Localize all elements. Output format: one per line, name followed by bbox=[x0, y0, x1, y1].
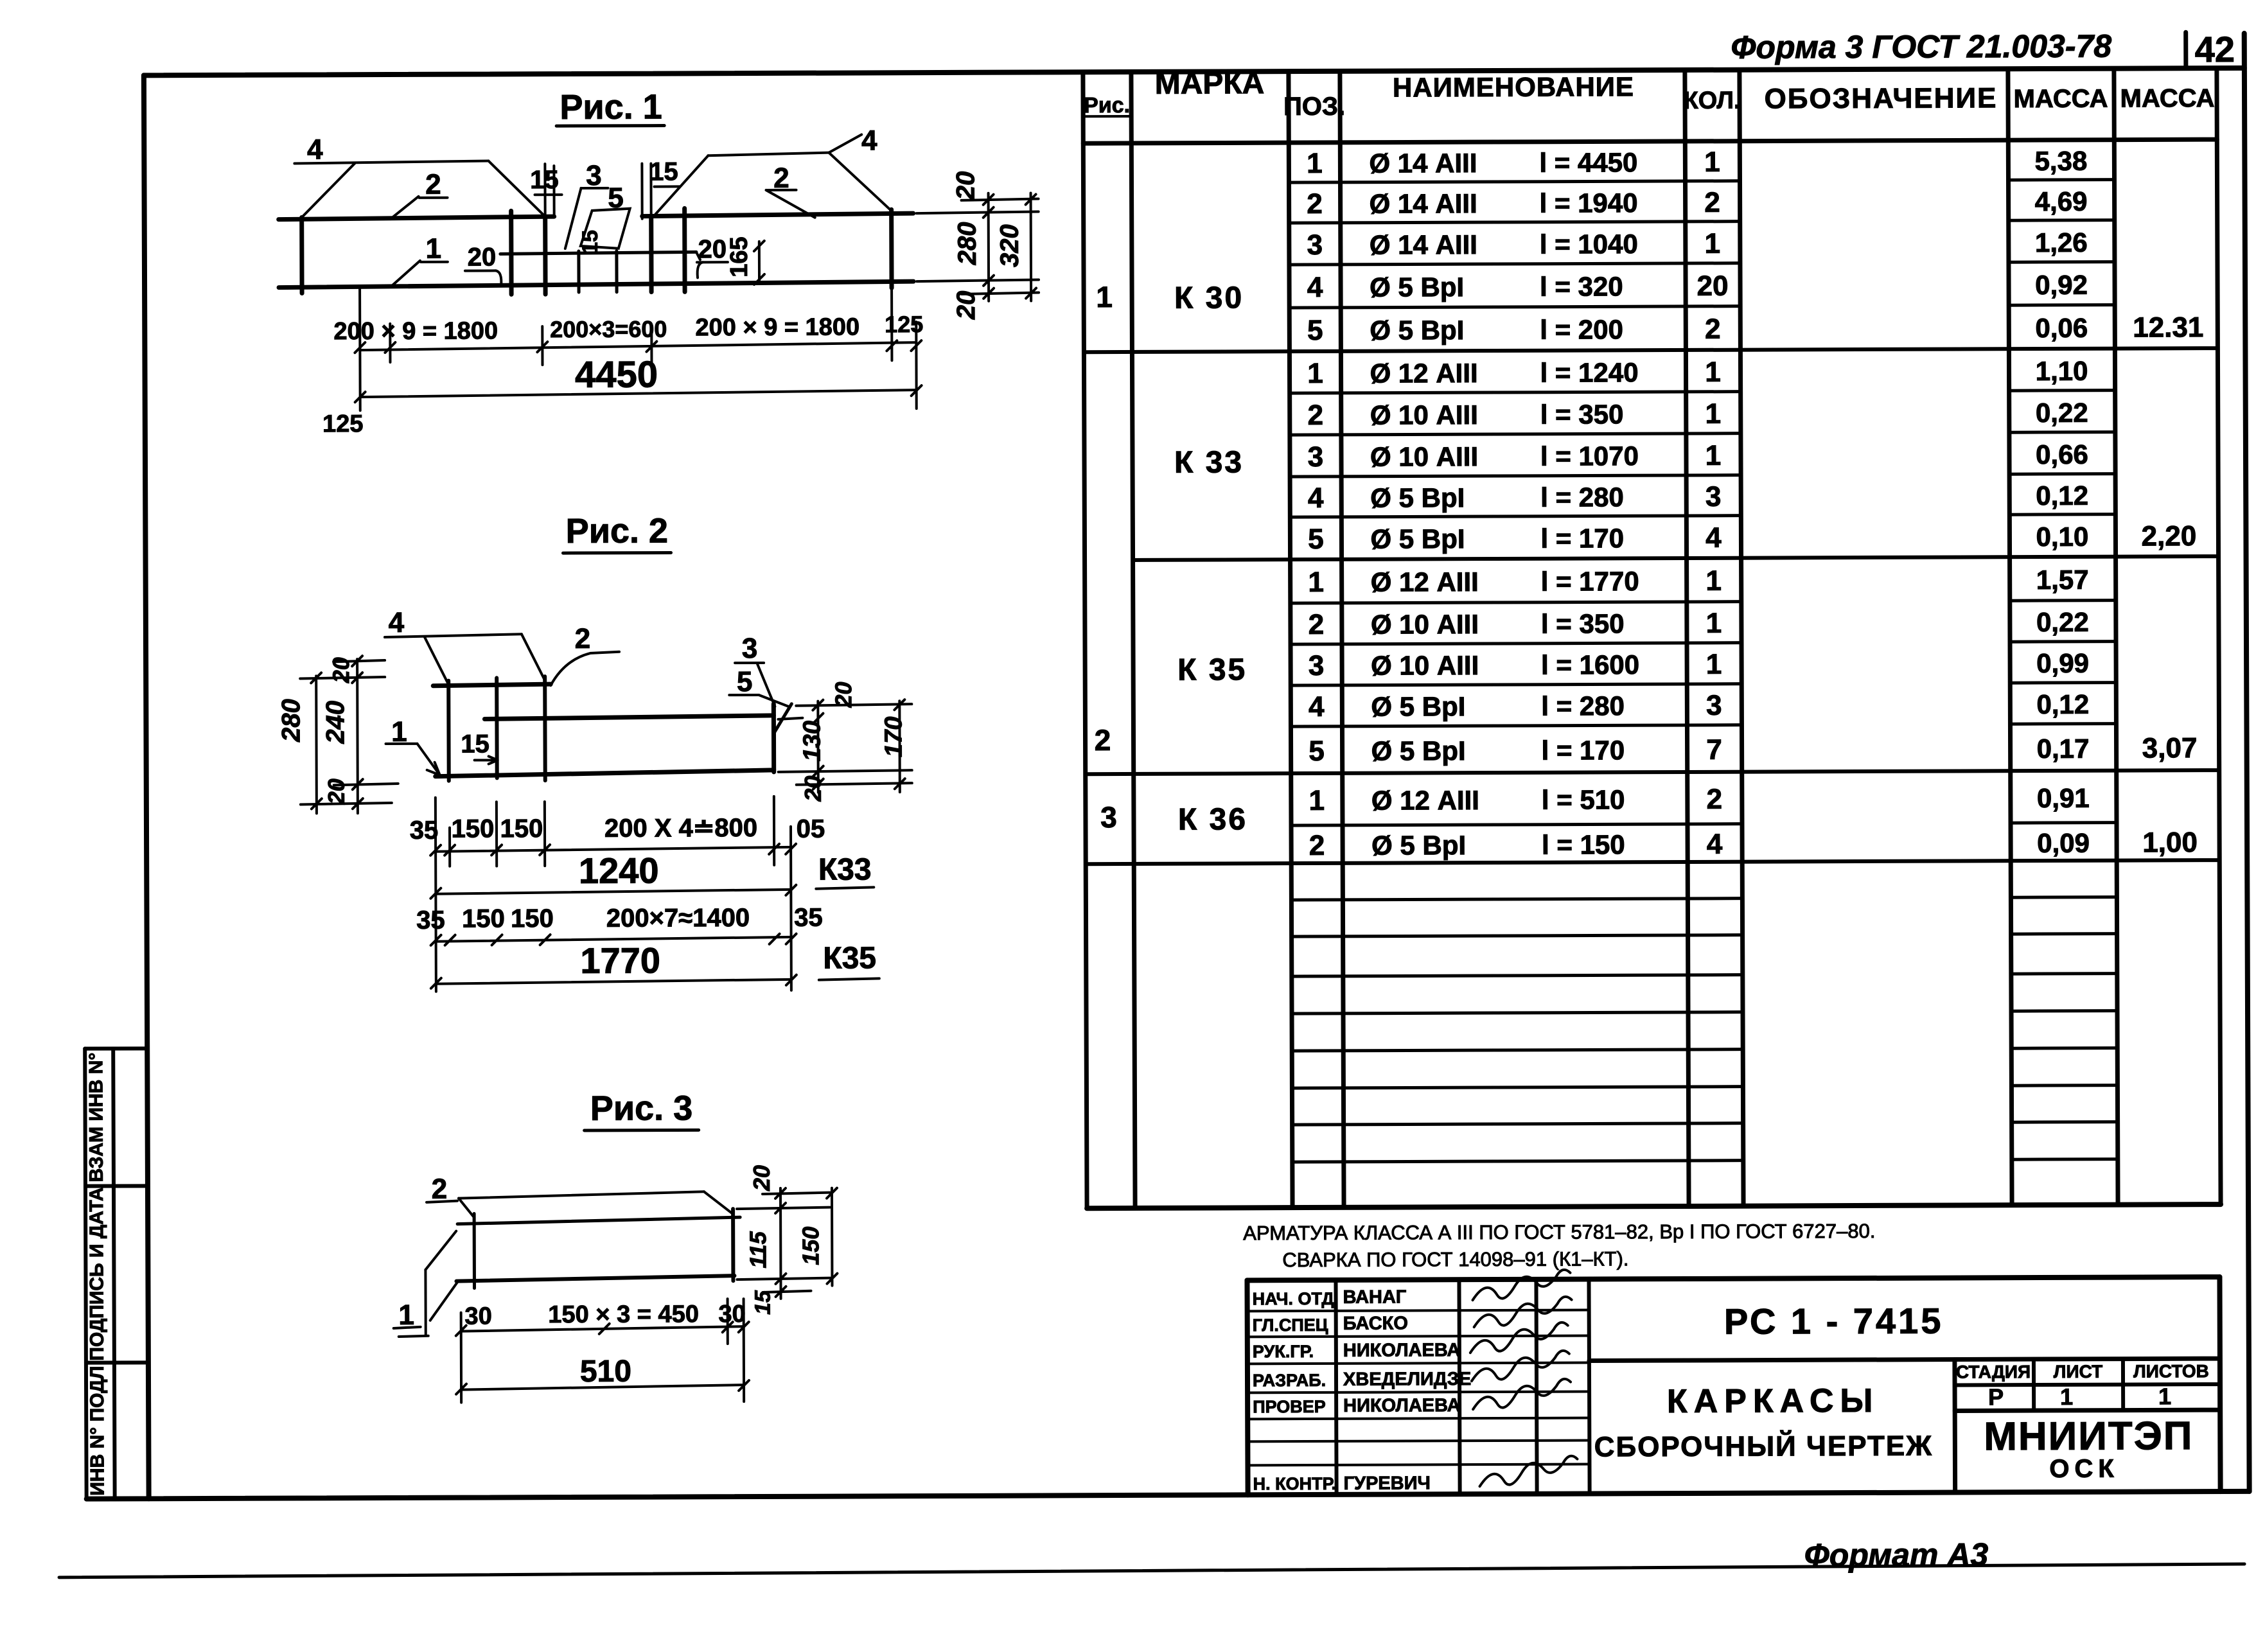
svg-text:20: 20 bbox=[748, 1165, 775, 1191]
title block outer border bbox=[1247, 1277, 2219, 1280]
svg-text:42: 42 bbox=[2195, 29, 2235, 69]
svg-text:1: 1 bbox=[1706, 649, 1722, 680]
svg-text:200 × 9 = 1800: 200 × 9 = 1800 bbox=[695, 313, 859, 341]
svg-text:Ø 5 ВрI: Ø 5 ВрI bbox=[1371, 691, 1465, 722]
fig1 middle splice bar line bbox=[500, 252, 696, 254]
svg-text:АРМАТУРА КЛАССА А III ПО ГОСТ: АРМАТУРА КЛАССА А III ПО ГОСТ 5781–82, В… bbox=[1243, 1220, 1875, 1244]
svg-text:0,12: 0,12 bbox=[2036, 480, 2088, 511]
fig3 top back edge bbox=[459, 1191, 704, 1198]
svg-text:ВАНАГ: ВАНАГ bbox=[1343, 1287, 1407, 1307]
svg-text:Ø 5 ВрI: Ø 5 ВрI bbox=[1370, 315, 1464, 346]
fig1 bent bar 4 right top bbox=[708, 153, 829, 156]
svg-text:20: 20 bbox=[952, 291, 980, 321]
svg-text:l = 150: l = 150 bbox=[1542, 829, 1625, 859]
svg-text:ИНВ N° ПОДЛ: ИНВ N° ПОДЛ bbox=[87, 1366, 109, 1495]
svg-text:3: 3 bbox=[1308, 441, 1324, 473]
svg-text:20: 20 bbox=[328, 657, 354, 683]
svg-text:150: 150 bbox=[452, 814, 495, 843]
svg-text:0,17: 0,17 bbox=[2037, 734, 2090, 764]
svg-text:2: 2 bbox=[575, 623, 591, 655]
svg-text:l = 1070: l = 1070 bbox=[1540, 441, 1639, 471]
svg-text:НИКОЛАЕВА: НИКОЛАЕВА bbox=[1343, 1340, 1461, 1361]
svg-text:20: 20 bbox=[1697, 270, 1729, 302]
svg-text:2: 2 bbox=[1095, 723, 1111, 757]
svg-text:35: 35 bbox=[416, 906, 445, 935]
svg-text:Ø 5 ВрI: Ø 5 ВрI bbox=[1370, 482, 1465, 513]
svg-text:Ø 12 АIII: Ø 12 АIII bbox=[1371, 785, 1479, 816]
svg-text:130: 130 bbox=[798, 721, 825, 762]
svg-text:Р: Р bbox=[1988, 1384, 2004, 1410]
svg-text:150: 150 bbox=[511, 904, 554, 933]
svg-text:5,38: 5,38 bbox=[2034, 146, 2087, 176]
svg-text:СТАДИЯ: СТАДИЯ bbox=[1956, 1362, 2031, 1382]
svg-text:1: 1 bbox=[2158, 1383, 2171, 1409]
svg-text:0,22: 0,22 bbox=[2036, 398, 2088, 428]
svg-text:30: 30 bbox=[718, 1301, 745, 1328]
svg-text:2: 2 bbox=[1307, 400, 1323, 431]
row lines bbox=[1289, 181, 1740, 182]
svg-text:МАРКА: МАРКА bbox=[1155, 66, 1265, 101]
svg-text:К 35: К 35 bbox=[1177, 653, 1247, 687]
fig2 dim row A bbox=[436, 847, 791, 852]
svg-text:3,07: 3,07 bbox=[2142, 732, 2198, 764]
svg-text:Рис. 2: Рис. 2 bbox=[566, 511, 669, 550]
fig3 right dim block bbox=[737, 1208, 830, 1209]
svg-text:240: 240 bbox=[321, 701, 349, 744]
fig1 top chord bar 2 left segment bbox=[279, 216, 554, 219]
svg-text:4,69: 4,69 bbox=[2035, 186, 2088, 216]
svg-text:1,10: 1,10 bbox=[2036, 356, 2088, 386]
svg-text:20: 20 bbox=[698, 235, 727, 263]
svg-text:К35: К35 bbox=[823, 941, 876, 975]
Рис. header cell underline bbox=[1083, 115, 1131, 118]
svg-text:0,09: 0,09 bbox=[2037, 828, 2090, 858]
fig3 right end vertical bbox=[731, 1209, 735, 1281]
svg-text:ОБОЗНАЧЕНИЕ: ОБОЗНАЧЕНИЕ bbox=[1765, 82, 1998, 114]
svg-text:1: 1 bbox=[1705, 440, 1722, 471]
svg-text:К33: К33 bbox=[818, 852, 872, 886]
svg-text:150: 150 bbox=[462, 904, 505, 933]
svg-text:1: 1 bbox=[1096, 280, 1113, 313]
svg-text:2: 2 bbox=[1707, 784, 1723, 815]
svg-text:Ø 5 ВрI: Ø 5 ВрI bbox=[1370, 523, 1465, 554]
svg-text:l = 350: l = 350 bbox=[1541, 608, 1625, 638]
svg-text:2: 2 bbox=[432, 1173, 448, 1205]
svg-text:Форма 3 ГОСТ 21.003-78: Форма 3 ГОСТ 21.003-78 bbox=[1731, 28, 2111, 66]
svg-text:200 × 9 = 1800: 200 × 9 = 1800 bbox=[333, 317, 498, 345]
svg-text:15: 15 bbox=[578, 230, 603, 254]
svg-text:2: 2 bbox=[1309, 609, 1325, 640]
svg-text:ОСК: ОСК bbox=[2049, 1455, 2119, 1483]
svg-text:1: 1 bbox=[1308, 567, 1324, 598]
svg-text:3: 3 bbox=[1705, 481, 1722, 513]
svg-text:20: 20 bbox=[800, 776, 826, 802]
svg-text:РУК.ГР.: РУК.ГР. bbox=[1253, 1342, 1314, 1361]
fig2 bar4 parallelogram right slope bbox=[522, 634, 545, 680]
svg-text:3: 3 bbox=[742, 633, 758, 664]
svg-text:15: 15 bbox=[461, 730, 489, 758]
table header bottom line bbox=[1083, 139, 2217, 143]
svg-text:1: 1 bbox=[1705, 565, 1722, 597]
svg-text:l = 280: l = 280 bbox=[1541, 690, 1625, 721]
svg-text:280: 280 bbox=[277, 699, 305, 743]
page number box 42 bbox=[2183, 32, 2188, 68]
svg-text:4: 4 bbox=[1309, 691, 1325, 723]
fig2 dim row D 1770 bbox=[436, 980, 791, 984]
svg-text:Ø 10 АIII: Ø 10 АIII bbox=[1370, 400, 1478, 430]
svg-text:Н. КОНТР.: Н. КОНТР. bbox=[1253, 1474, 1337, 1493]
svg-text:ПОДПИСЬ И ДАТА: ПОДПИСЬ И ДАТА bbox=[86, 1187, 108, 1360]
fig1 dimension row 1 bbox=[360, 342, 916, 350]
svg-text:15: 15 bbox=[649, 157, 678, 186]
svg-text:35: 35 bbox=[410, 816, 439, 845]
fig1 right trapezoid right slope bbox=[829, 152, 890, 209]
fig1 right trapezoid left slope bbox=[653, 155, 708, 216]
svg-text:l = 320: l = 320 bbox=[1540, 271, 1623, 301]
fig2 dim row C bbox=[436, 937, 791, 942]
svg-text:Ø 10 АIII: Ø 10 АIII bbox=[1371, 609, 1479, 640]
svg-text:Формат А3: Формат А3 bbox=[1804, 1536, 1989, 1573]
svg-text:МАССА: МАССА bbox=[2014, 85, 2108, 114]
svg-text:МАССА: МАССА bbox=[2120, 84, 2215, 113]
svg-text:0,92: 0,92 bbox=[2035, 270, 2088, 300]
fig2 long top bar 3 bbox=[484, 716, 773, 719]
svg-text:115: 115 bbox=[745, 1231, 771, 1269]
fig1 dimension row 2 4450 bbox=[360, 390, 917, 397]
svg-text:200 X 4≐800: 200 X 4≐800 bbox=[604, 814, 757, 843]
svg-text:320: 320 bbox=[996, 224, 1024, 267]
svg-text:4: 4 bbox=[1308, 482, 1324, 514]
svg-text:20: 20 bbox=[323, 778, 349, 805]
svg-text:ВЗАМ ИНВ N°: ВЗАМ ИНВ N° bbox=[85, 1053, 107, 1182]
svg-text:l = 510: l = 510 bbox=[1542, 784, 1625, 814]
svg-text:РС 1 - 7415: РС 1 - 7415 bbox=[1724, 1301, 1944, 1342]
title block verticals bbox=[1335, 1280, 1336, 1495]
svg-text:20: 20 bbox=[468, 243, 497, 271]
svg-text:НИКОЛАЕВА: НИКОЛАЕВА bbox=[1343, 1395, 1461, 1416]
fig3 right top slope bbox=[704, 1191, 733, 1214]
svg-text:30: 30 bbox=[464, 1303, 491, 1330]
svg-text:125: 125 bbox=[885, 311, 923, 337]
svg-text:3: 3 bbox=[1309, 650, 1325, 681]
svg-text:2: 2 bbox=[425, 169, 441, 200]
svg-text:1: 1 bbox=[1309, 785, 1325, 816]
svg-text:1: 1 bbox=[1307, 358, 1323, 389]
svg-text:l = 170: l = 170 bbox=[1540, 523, 1624, 553]
svg-text:Рис. 3: Рис. 3 bbox=[590, 1089, 693, 1128]
svg-text:150: 150 bbox=[500, 814, 543, 843]
fig3 front top edge bbox=[457, 1217, 740, 1224]
svg-text:l = 4450: l = 4450 bbox=[1539, 147, 1637, 178]
svg-text:Ø 10 АIII: Ø 10 АIII bbox=[1370, 441, 1478, 472]
svg-text:Рис. 1: Рис. 1 bbox=[560, 88, 662, 127]
svg-text:4: 4 bbox=[1707, 829, 1723, 860]
fig3 bottom front edge bbox=[456, 1276, 734, 1281]
fig2 right dim block bbox=[796, 704, 912, 706]
svg-text:l = 350: l = 350 bbox=[1540, 399, 1624, 429]
svg-text:35: 35 bbox=[794, 904, 823, 932]
svg-text:4: 4 bbox=[861, 125, 877, 156]
svg-text:Ø 5 ВрI: Ø 5 ВрI bbox=[1371, 735, 1466, 766]
svg-text:К 33: К 33 bbox=[1174, 445, 1244, 479]
table verticals bbox=[1083, 72, 1087, 1208]
svg-text:1770: 1770 bbox=[580, 940, 660, 981]
fig2 box verticals bbox=[446, 681, 451, 781]
svg-text:4: 4 bbox=[1307, 272, 1323, 303]
svg-text:l = 1940: l = 1940 bbox=[1540, 188, 1638, 218]
fig1 left trapezoid right slope bbox=[488, 161, 545, 216]
svg-text:0,91: 0,91 bbox=[2037, 783, 2090, 813]
svg-text:1: 1 bbox=[1706, 608, 1722, 639]
fig3 left top bend bbox=[459, 1199, 474, 1218]
svg-text:0,12: 0,12 bbox=[2036, 689, 2089, 719]
fig3 left inner bend bbox=[430, 1282, 457, 1321]
svg-text:1,00: 1,00 bbox=[2142, 827, 2198, 858]
fig2 bar4 parallelogram left slope bbox=[425, 637, 448, 683]
svg-text:Ø 5 ВрI: Ø 5 ВрI bbox=[1371, 830, 1466, 861]
svg-text:280: 280 bbox=[953, 222, 982, 265]
svg-text:l = 170: l = 170 bbox=[1542, 735, 1625, 765]
svg-text:РАЗРАБ.: РАЗРАБ. bbox=[1253, 1371, 1326, 1390]
svg-text:2: 2 bbox=[1704, 187, 1720, 218]
svg-text:5: 5 bbox=[737, 666, 753, 698]
fig2 left dim block bbox=[315, 676, 318, 813]
svg-text:3: 3 bbox=[1706, 690, 1722, 721]
svg-text:1240: 1240 bbox=[579, 850, 659, 891]
svg-text:l = 280: l = 280 bbox=[1540, 482, 1624, 512]
svg-text:0,66: 0,66 bbox=[2036, 439, 2088, 470]
svg-text:ПОЗ.: ПОЗ. bbox=[1283, 92, 1345, 121]
svg-text:1: 1 bbox=[1704, 146, 1720, 178]
svg-text:3: 3 bbox=[586, 160, 602, 191]
svg-text:1: 1 bbox=[1307, 148, 1323, 179]
fig1 right side dimension block bbox=[917, 211, 1039, 213]
fig3 dim row 1 bbox=[461, 1326, 744, 1331]
svg-text:МНИИТЭП: МНИИТЭП bbox=[1984, 1414, 2193, 1459]
svg-text:l = 200: l = 200 bbox=[1540, 314, 1623, 344]
svg-text:2: 2 bbox=[1309, 830, 1325, 861]
svg-text:15: 15 bbox=[751, 1290, 775, 1315]
svg-text:2: 2 bbox=[1705, 313, 1721, 345]
svg-text:ЛИСТ: ЛИСТ bbox=[2054, 1362, 2103, 1382]
svg-text:ГУРЕВИЧ: ГУРЕВИЧ bbox=[1344, 1473, 1431, 1493]
svg-text:1: 1 bbox=[1705, 356, 1721, 388]
svg-text:БАСКО: БАСКО bbox=[1343, 1313, 1408, 1333]
svg-text:0,10: 0,10 bbox=[2036, 522, 2088, 552]
svg-text:1: 1 bbox=[2060, 1384, 2073, 1410]
svg-text:5: 5 bbox=[1307, 315, 1323, 346]
svg-text:0,99: 0,99 bbox=[2036, 648, 2089, 678]
svg-text:05: 05 bbox=[797, 815, 825, 843]
svg-text:1: 1 bbox=[1705, 228, 1721, 259]
svg-text:12.31: 12.31 bbox=[2133, 312, 2203, 343]
svg-text:2: 2 bbox=[1307, 188, 1323, 220]
svg-text:20: 20 bbox=[830, 681, 856, 708]
table bottom line bbox=[1087, 1204, 2221, 1208]
svg-text:Ø 14 АIII: Ø 14 АIII bbox=[1369, 148, 1477, 179]
drawing frame bbox=[144, 68, 2244, 75]
svg-text:ХВЕДЕЛИДЗЕ: ХВЕДЕЛИДЗЕ bbox=[1343, 1369, 1471, 1390]
fig1 bottom chord bar 1 bbox=[279, 281, 913, 287]
svg-text:1,26: 1,26 bbox=[2035, 227, 2088, 258]
fig1 top chord bar 2 right segment bbox=[642, 213, 913, 216]
fig2 top chord bar 2 bbox=[433, 684, 551, 686]
svg-text:7: 7 bbox=[1706, 734, 1722, 766]
title block horizontals bbox=[1589, 1358, 2220, 1360]
svg-text:0,22: 0,22 bbox=[2036, 607, 2089, 637]
svg-text:1,57: 1,57 bbox=[2036, 565, 2089, 595]
svg-text:l = 1040: l = 1040 bbox=[1540, 229, 1638, 259]
svg-text:КАРКАСЫ: КАРКАСЫ bbox=[1667, 1382, 1880, 1420]
svg-text:ГЛ.СПЕЦ: ГЛ.СПЕЦ bbox=[1253, 1315, 1328, 1335]
sheet bottom edge line bbox=[59, 1564, 2244, 1577]
fig1 stirrup verticals bbox=[299, 217, 304, 293]
svg-text:150 × 3 = 450: 150 × 3 = 450 bbox=[548, 1301, 699, 1328]
svg-text:200×7≈1400: 200×7≈1400 bbox=[606, 904, 750, 933]
fig3 left outer bend bbox=[425, 1231, 456, 1270]
fig2 dim row B 1240 bbox=[436, 890, 791, 894]
svg-text:5: 5 bbox=[1308, 523, 1324, 555]
svg-text:ПРОВЕР: ПРОВЕР bbox=[1253, 1397, 1326, 1416]
svg-text:5: 5 bbox=[1309, 735, 1325, 767]
svg-text:Ø 12 АIII: Ø 12 АIII bbox=[1370, 358, 1477, 389]
svg-text:НАИМЕНОВАНИЕ: НАИМЕНОВАНИЕ bbox=[1393, 71, 1634, 102]
svg-text:2,20: 2,20 bbox=[2142, 520, 2197, 552]
svg-text:Ø 5 ВрI: Ø 5 ВрI bbox=[1370, 272, 1464, 303]
svg-text:l = 1600: l = 1600 bbox=[1541, 649, 1639, 680]
svg-text:Рис.: Рис. bbox=[1084, 93, 1130, 118]
signature squiggles bbox=[1472, 1270, 1570, 1300]
svg-text:l = 1770: l = 1770 bbox=[1541, 566, 1639, 597]
fig1 left trapezoid left slope bbox=[301, 163, 355, 217]
svg-text:3: 3 bbox=[1100, 800, 1117, 834]
fig3 weld mark vertical bbox=[473, 1214, 476, 1288]
svg-text:1: 1 bbox=[1705, 398, 1721, 430]
svg-text:l = 1240: l = 1240 bbox=[1540, 357, 1638, 388]
fig2 bottom chord bar 1 bbox=[436, 770, 774, 777]
svg-text:НАЧ. ОТД: НАЧ. ОТД bbox=[1253, 1289, 1334, 1308]
svg-text:15: 15 bbox=[530, 166, 559, 194]
svg-text:125: 125 bbox=[322, 410, 364, 437]
svg-text:СВАРКА ПО ГОСТ 14098–91 (К1–КТ: СВАРКА ПО ГОСТ 14098–91 (К1–КТ). bbox=[1282, 1247, 1628, 1271]
svg-text:Ø 14 АIII: Ø 14 АIII bbox=[1370, 188, 1477, 219]
svg-text:ЛИСТОВ: ЛИСТОВ bbox=[2133, 1361, 2209, 1381]
svg-text:510: 510 bbox=[580, 1355, 631, 1389]
svg-text:КОЛ.: КОЛ. bbox=[1683, 87, 1740, 114]
svg-text:Ø 10 АIII: Ø 10 АIII bbox=[1371, 650, 1479, 681]
fig3 dim row 2 510 bbox=[461, 1385, 744, 1390]
svg-text:1: 1 bbox=[426, 233, 442, 265]
block separator lines bbox=[1084, 348, 2217, 352]
svg-text:165: 165 bbox=[726, 236, 753, 277]
svg-text:3: 3 bbox=[1307, 229, 1323, 261]
svg-text:4: 4 bbox=[307, 134, 323, 165]
svg-text:200×3=600: 200×3=600 bbox=[550, 316, 667, 343]
svg-text:К 30: К 30 bbox=[1174, 281, 1244, 315]
svg-text:Ø 14 АIII: Ø 14 АIII bbox=[1370, 229, 1477, 260]
svg-text:4450: 4450 bbox=[575, 354, 658, 396]
svg-text:170: 170 bbox=[880, 716, 907, 757]
svg-text:К 36: К 36 bbox=[1178, 802, 1247, 836]
svg-text:4: 4 bbox=[389, 607, 405, 638]
svg-text:150: 150 bbox=[797, 1227, 824, 1265]
svg-text:20: 20 bbox=[951, 171, 980, 201]
fig1 bent bar 4 left top bbox=[294, 161, 488, 163]
svg-text:0,06: 0,06 bbox=[2035, 313, 2088, 343]
svg-text:4: 4 bbox=[1705, 522, 1722, 554]
svg-text:СБОРОЧНЫЙ ЧЕРТЕЖ: СБОРОЧНЫЙ ЧЕРТЕЖ bbox=[1594, 1429, 1933, 1463]
left margin stamp boxes bbox=[85, 1046, 147, 1050]
fig2 right end diagonal bar 5 bbox=[773, 704, 791, 734]
fig2 right end vertical bbox=[771, 704, 776, 772]
svg-text:Ø 12 АIII: Ø 12 АIII bbox=[1371, 567, 1479, 597]
